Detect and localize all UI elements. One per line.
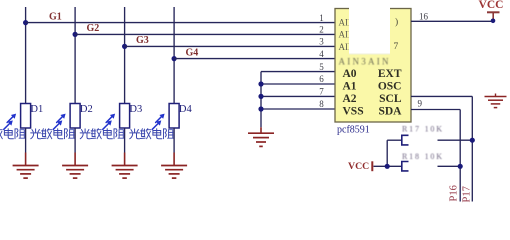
svg-text:7: 7 xyxy=(319,87,324,97)
resistor R18 left lead xyxy=(374,165,402,167)
op-amp/ADC chip U1 pcf8591 body xyxy=(335,9,411,123)
svg-text:G3: G3 xyxy=(136,35,149,46)
svg-text:OSC: OSC xyxy=(378,81,402,93)
svg-text:R17 10K: R17 10K xyxy=(402,125,442,134)
svg-text:G2: G2 xyxy=(87,23,100,34)
wire D3 to ground xyxy=(124,128,126,153)
svg-text:D1: D1 xyxy=(30,104,43,115)
label 光敏电阻 for D4 xyxy=(130,129,140,139)
photoresistor D2 body xyxy=(70,104,80,129)
node VCC/R18 junction xyxy=(385,164,390,169)
node R18/SDA junction xyxy=(458,164,463,169)
wire G1 horizontal to pin 1 xyxy=(26,22,335,24)
svg-text:SDA: SDA xyxy=(378,106,402,118)
photoresistor D1 light arrows xyxy=(4,114,16,130)
wire D2 to ground xyxy=(74,128,76,153)
wire G2 horizontal to pin 2 xyxy=(75,33,335,35)
resistor R17 right lead xyxy=(438,139,473,141)
photoresistor D1 body xyxy=(21,104,31,129)
node G2 junction xyxy=(73,32,78,37)
photoresistor D2 light arrows xyxy=(53,114,65,130)
svg-text:A0: A0 xyxy=(343,68,357,80)
svg-text:G1: G1 xyxy=(49,11,62,22)
resistor R18 body bracket xyxy=(402,162,409,171)
photoresistor D3 body xyxy=(120,104,130,129)
wire pin 7 stub xyxy=(261,95,335,97)
wire pin5 corner xyxy=(261,71,335,73)
wire pin 6 stub xyxy=(261,83,335,85)
svg-text:A1: A1 xyxy=(343,81,357,93)
wire G3 horizontal to pin 3 xyxy=(125,45,335,47)
ground under D2 xyxy=(74,153,76,166)
svg-text:5: 5 xyxy=(319,62,324,72)
wire D4 to ground xyxy=(173,128,175,153)
svg-text:R18 10K: R18 10K xyxy=(402,152,442,161)
node pin 6 junction xyxy=(258,81,263,86)
wire G4 horizontal to pin 4 xyxy=(174,58,335,60)
wire pin 8 stub xyxy=(261,108,335,110)
chip notch (white cutout) xyxy=(349,7,390,54)
photoresistor D3 light arrows xyxy=(103,114,115,130)
label 光敏电阻 for D3 xyxy=(80,129,90,139)
wire vertical column 2 xyxy=(74,7,76,104)
svg-text:3: 3 xyxy=(319,37,324,47)
wire D1 to ground xyxy=(25,128,27,153)
wire vertical column 1 xyxy=(25,7,27,104)
wire vertical column 4 xyxy=(173,7,175,104)
svg-text:9: 9 xyxy=(418,98,423,108)
svg-text:P17: P17 xyxy=(462,186,473,202)
svg-text:VCC: VCC xyxy=(479,0,504,11)
svg-text:VCC: VCC xyxy=(348,161,369,172)
node pin 7 junction xyxy=(258,94,263,99)
ground under D3 xyxy=(124,153,126,166)
photoresistor D4 body xyxy=(169,104,179,129)
node G3 junction xyxy=(122,44,127,49)
node R17/SCL junction xyxy=(470,138,475,143)
wire SCL vertical to P17 xyxy=(471,96,473,201)
wire pin16 to VCC xyxy=(411,20,493,22)
node G4 junction xyxy=(172,56,177,61)
svg-text:D4: D4 xyxy=(179,104,193,115)
ground under D1 xyxy=(25,153,27,166)
svg-text:P16: P16 xyxy=(449,185,460,201)
wire VCC riser to R17 xyxy=(386,140,388,166)
label 光敏电阻 for D2 xyxy=(31,129,41,139)
svg-text:8: 8 xyxy=(319,99,324,109)
svg-text:pcf8591: pcf8591 xyxy=(337,125,370,136)
svg-text:): ) xyxy=(395,17,398,28)
wire junction column pins 5-8 xyxy=(260,72,262,128)
svg-text:A2: A2 xyxy=(343,93,357,105)
resistor R18 right lead xyxy=(438,165,461,167)
svg-text:2: 2 xyxy=(319,25,324,35)
svg-text:4: 4 xyxy=(319,49,324,59)
ground for pins 5-8 xyxy=(260,127,262,133)
svg-text:SCL: SCL xyxy=(379,93,402,105)
svg-text:7: 7 xyxy=(394,42,399,52)
svg-text:1: 1 xyxy=(319,13,324,23)
photoresistor D4 light arrows xyxy=(152,114,164,130)
resistor R17 left lead xyxy=(387,139,402,141)
svg-text:16: 16 xyxy=(419,12,429,22)
svg-text:6: 6 xyxy=(319,74,324,84)
resistor R17 body bracket xyxy=(402,135,409,145)
ground under D4 xyxy=(173,153,175,166)
wire vertical column 3 xyxy=(124,7,126,104)
wire SCL from chip xyxy=(411,95,472,97)
ground (floating, right) xyxy=(495,94,497,97)
svg-text:D2: D2 xyxy=(80,104,93,115)
node pin 8 junction xyxy=(258,106,263,111)
svg-text:EXT: EXT xyxy=(378,68,402,80)
wire SDA from chip xyxy=(411,109,460,111)
svg-text:G4: G4 xyxy=(186,47,199,58)
svg-text:D3: D3 xyxy=(129,104,142,115)
svg-text:VSS: VSS xyxy=(343,106,364,118)
wire SDA vertical to P16 xyxy=(459,110,461,202)
node G1 junction xyxy=(23,20,28,25)
node VCC wire dot xyxy=(491,19,496,24)
